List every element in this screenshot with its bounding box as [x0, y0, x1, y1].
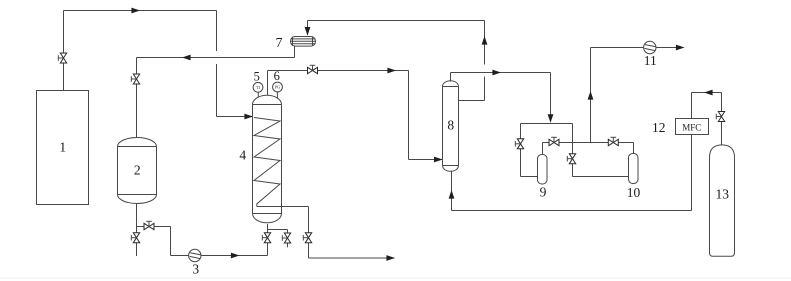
wire MFC inlet up	[691, 93, 693, 119]
wire condenser outlet down	[294, 46, 296, 58]
svg-text:12: 12	[652, 120, 666, 135]
arrow bottoms product out	[386, 255, 395, 261]
valve V2 above vessel 2	[131, 74, 139, 84]
wire into pump 3	[171, 255, 190, 257]
wire overhead down	[408, 71, 410, 160]
wire bottoms run right	[309, 257, 395, 259]
arrow down into condenser	[305, 27, 311, 36]
vessel 2	[118, 138, 157, 204]
wire column bottoms outlet	[257, 206, 309, 208]
faint scan band at page bottom	[0, 277, 791, 279]
wire cylinder 10 top stub	[633, 143, 635, 154]
wire MFC outlet down	[691, 135, 693, 211]
valve V11 on cylinder 9 top	[549, 137, 559, 145]
svg-text:PG: PG	[275, 85, 280, 90]
wire into vessel 8	[409, 159, 443, 161]
condenser 7	[291, 37, 316, 47]
arrow up on riser	[588, 91, 594, 100]
wire middle leg down	[572, 143, 574, 177]
valve V3 on pump branch	[144, 221, 154, 229]
arrow up on condenser riser	[482, 36, 488, 45]
tank 1	[37, 91, 89, 205]
wire from cylinder 13 valve	[692, 92, 722, 94]
wire top right run	[308, 20, 485, 22]
valve V9 on overhead run	[308, 65, 318, 73]
arrow left toward MFC	[704, 90, 713, 96]
valve V10 on left leg	[515, 139, 523, 149]
svg-text:10: 10	[627, 185, 641, 200]
valve V4 on vessel2 drain	[131, 233, 139, 243]
wire left leg down	[520, 124, 522, 177]
svg-text:6: 6	[274, 69, 280, 83]
wire down to sampling manifold	[550, 73, 552, 122]
wire drain stub	[287, 230, 289, 248]
wire drain branch under column	[268, 229, 288, 231]
wire bottoms down	[308, 207, 310, 259]
wire return run to vessel 2	[137, 57, 295, 59]
MFC 12 box	[676, 119, 709, 135]
svg-text:13: 13	[716, 186, 730, 201]
wire condenser inlet drop	[307, 21, 309, 36]
arrow right on overhead run	[387, 68, 396, 74]
svg-text:MFC: MFC	[682, 123, 701, 133]
wire pump 11 run	[591, 47, 683, 49]
valve V13 on cylinder 10 top	[608, 137, 618, 145]
wire condenser riser (jumps over vessel8 top line)	[484, 21, 486, 101]
arrow down into manifold	[548, 114, 554, 123]
arrow left on return run	[182, 55, 191, 61]
wire vessel8 vapour outlet	[458, 100, 485, 102]
wire branch down	[170, 227, 172, 256]
wire riser to pump 11	[590, 48, 592, 143]
pump 11	[644, 41, 657, 53]
wire branch to pump	[137, 226, 171, 228]
wire vessel2 bottom stub	[136, 204, 138, 234]
wire gas up into vessel8	[451, 171, 453, 211]
wire tank1 top stub	[63, 11, 65, 91]
gauge 6 (PG)	[273, 82, 283, 98]
valve V12 on middle leg	[567, 154, 575, 164]
arrow right on vessel8 top run	[492, 70, 501, 76]
column 4	[253, 95, 282, 223]
valve V1 on tank1 outlet	[58, 53, 66, 63]
wire overhead run	[268, 70, 409, 72]
gauge 5 (TI)	[253, 82, 263, 97]
wire vessel8 top stub	[450, 73, 452, 82]
wire drain stub below valve	[136, 233, 138, 256]
gas cylinder 13	[710, 145, 735, 256]
wire gas run to vessel 8	[452, 210, 692, 212]
wire into cylinder 10 bottom	[573, 176, 629, 178]
svg-text:2: 2	[134, 163, 141, 178]
svg-text:3: 3	[192, 262, 199, 277]
sample cylinder 10	[629, 154, 639, 184]
wire pump discharge	[202, 255, 268, 257]
valve V14 on cylinder 13	[716, 112, 724, 122]
wire manifold T bar	[521, 123, 573, 125]
wire vessel8 top run	[451, 72, 551, 74]
arrow right on top run	[131, 8, 140, 14]
svg-text:1: 1	[59, 140, 66, 155]
coil zigzag inside column 4	[254, 118, 280, 207]
wire T right leg	[572, 124, 574, 143]
valve V5 on column feed riser	[262, 233, 270, 243]
wire riser into column bottom	[267, 224, 269, 256]
wire manifold main run	[543, 142, 634, 144]
svg-text:4: 4	[239, 148, 246, 163]
svg-text:TI: TI	[256, 85, 260, 90]
wire down into vessel 2	[136, 58, 138, 140]
arrow up into vessel8 bottom	[449, 190, 455, 199]
wire feed into column 4	[217, 116, 253, 118]
svg-text:5: 5	[254, 69, 260, 83]
wire into cylinder 9 bottom	[521, 176, 538, 178]
svg-text:9: 9	[540, 185, 547, 200]
svg-text:8: 8	[447, 118, 454, 133]
arrow into vessel 8	[434, 157, 443, 163]
wire down run to column feed (jumps over return line)	[216, 11, 218, 117]
svg-text:11: 11	[644, 53, 657, 68]
arrow into column 4	[244, 114, 253, 120]
wire cylinder 13 neck	[721, 93, 723, 145]
wire column top stub	[267, 71, 269, 96]
valve V7 on bottoms outlet	[303, 233, 311, 243]
svg-text:7: 7	[276, 35, 283, 50]
arrow right on pump discharge	[231, 253, 240, 259]
wire top run	[64, 10, 217, 12]
wire cylinder 9 top stub	[542, 143, 544, 156]
pump 3	[189, 249, 201, 261]
valve V6 on column drain	[282, 233, 290, 243]
vessel 8	[443, 81, 459, 172]
arrow product gas out	[676, 45, 685, 51]
sample cylinder 9	[538, 155, 548, 185]
